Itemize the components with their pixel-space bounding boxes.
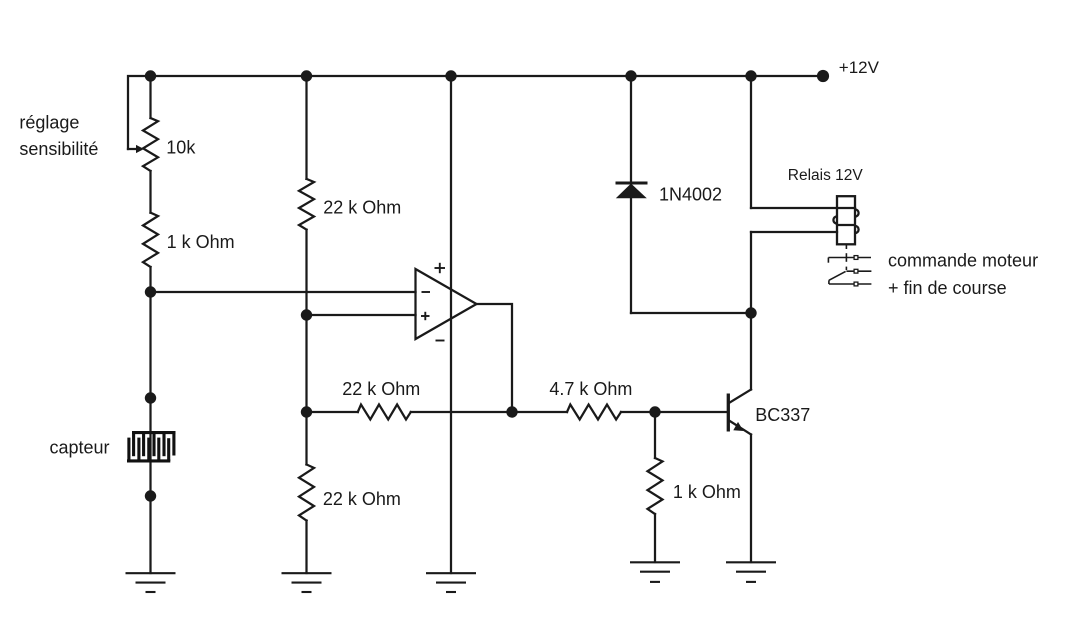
svg-text:capteur: capteur (50, 438, 110, 458)
svg-text:10k: 10k (166, 137, 196, 157)
svg-text:22 k Ohm: 22 k Ohm (342, 379, 420, 399)
svg-text:Relais 12V: Relais 12V (788, 167, 864, 184)
svg-text:+12V: +12V (839, 58, 880, 77)
svg-text:+ fin de course: + fin de course (888, 278, 1007, 298)
svg-text:BC337: BC337 (755, 405, 810, 425)
svg-text:1N4002: 1N4002 (659, 184, 722, 204)
svg-text:22 k Ohm: 22 k Ohm (323, 489, 401, 509)
svg-text:22 k Ohm: 22 k Ohm (323, 197, 401, 217)
svg-text:4.7 k Ohm: 4.7 k Ohm (549, 379, 632, 399)
svg-text:réglage: réglage (19, 112, 79, 132)
svg-text:sensibilité: sensibilité (19, 139, 98, 159)
svg-text:commande moteur: commande moteur (888, 251, 1038, 271)
svg-text:1 k Ohm: 1 k Ohm (167, 232, 235, 252)
svg-text:1 k Ohm: 1 k Ohm (673, 482, 741, 502)
